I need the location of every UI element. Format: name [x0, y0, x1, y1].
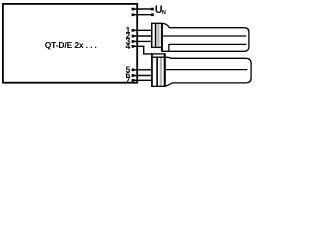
svg-text:7: 7	[126, 75, 131, 85]
svg-text:QT-D/E 2x . . .: QT-D/E 2x . . .	[45, 40, 97, 50]
svg-text:N: N	[162, 10, 166, 16]
svg-text:4: 4	[126, 41, 131, 51]
